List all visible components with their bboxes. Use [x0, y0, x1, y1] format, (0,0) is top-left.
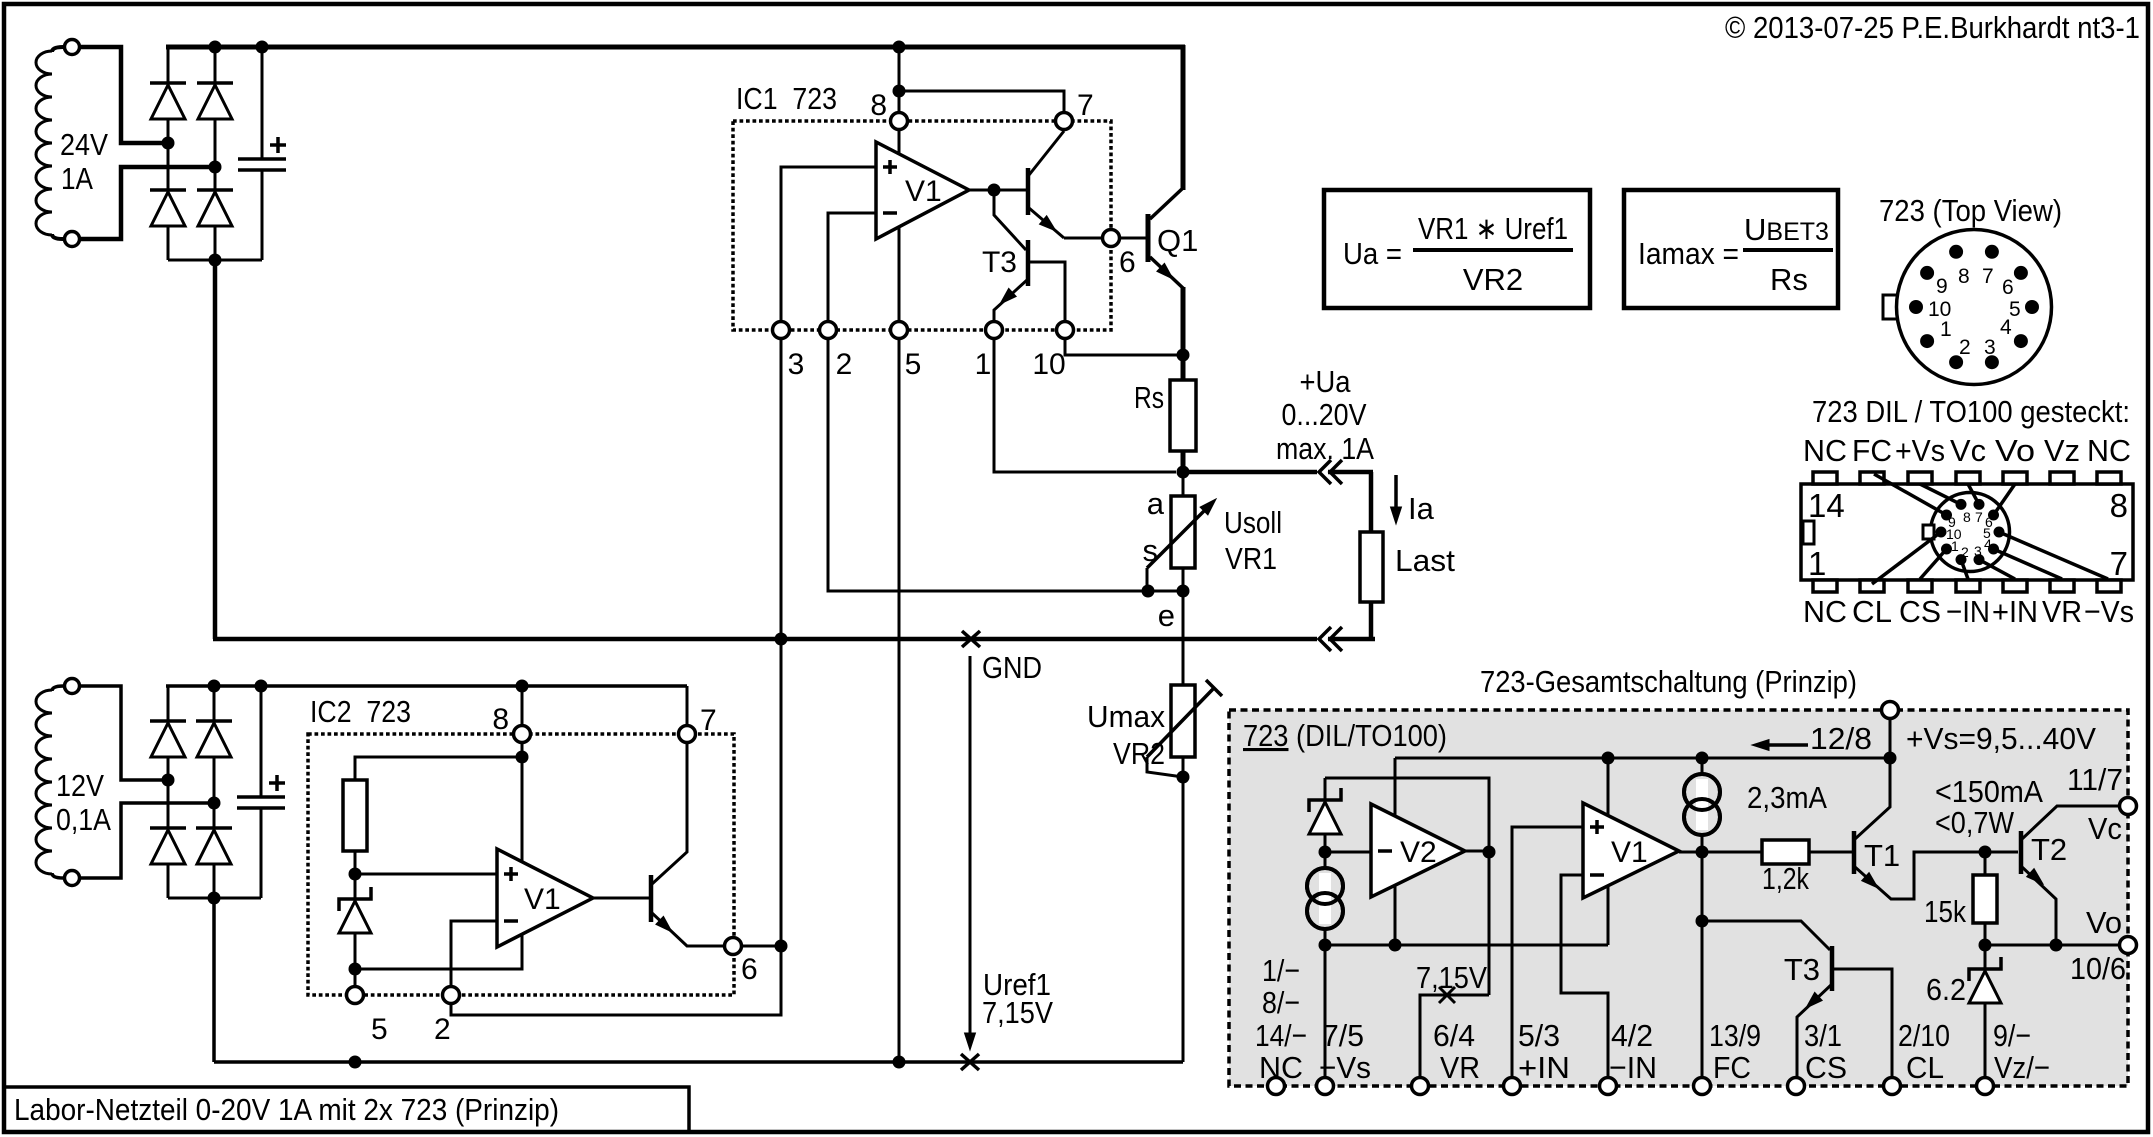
Vo wire: [1985, 944, 2119, 947]
svg-text:3: 3: [788, 348, 805, 381]
DIL bottom pin 1: [1813, 580, 1837, 592]
T3 collector to CL: [1832, 969, 1892, 1077]
DIL index notch: [1803, 521, 1814, 544]
diode D1: [150, 81, 186, 85]
bridge B2 bottom rail: [168, 897, 261, 900]
svg-text:−Vs: −Vs: [1319, 1050, 1371, 1085]
terminal TR1 top: [65, 40, 80, 55]
can pin 8: [1949, 245, 1963, 259]
svg-text:© 2013-07-25 P.E.Burkhardt nt3: © 2013-07-25 P.E.Burkhardt nt3-1: [1725, 10, 2140, 45]
bridge B1 bottom rail: [168, 259, 262, 262]
svg-text:1A: 1A: [61, 161, 93, 196]
svg-text:FC: FC: [1852, 433, 1892, 468]
resistor 1,2k: [1762, 840, 1809, 864]
wire: 24V negative down to GND rail: [213, 258, 218, 639]
diode D4: [197, 188, 233, 192]
wire: pin6 to Q1 base: [1120, 237, 1146, 240]
diode D2: [150, 188, 186, 192]
svg-text:8: 8: [492, 703, 509, 736]
svg-text:8/−: 8/−: [1262, 985, 1300, 1020]
pin 5 of IC2: [347, 987, 364, 1004]
node: zener bottom / V2 minus: [1319, 846, 1332, 859]
node: V- rail left: [1319, 939, 1332, 952]
node: V1 out: [988, 184, 1001, 197]
svg-text:9/−: 9/−: [1993, 1018, 2031, 1053]
svg-text:11/7: 11/7: [2067, 762, 2123, 797]
node: rail/IC2 pin8: [516, 680, 529, 693]
svg-text:0,1A: 0,1A: [56, 802, 111, 837]
node: rail/C1: [256, 41, 269, 54]
svg-text:2: 2: [1961, 544, 1969, 560]
transformer TR2 12V winding: [36, 690, 52, 874]
can pin dot 8: [1956, 499, 1967, 510]
wire: Rs bottom to VR1: [1182, 472, 1185, 496]
bridge B2 right column: [213, 686, 216, 898]
current source CS2 2,3mA: [1701, 758, 1704, 852]
op-amp V1 of IC1: [876, 142, 969, 239]
can pin dot 2: [1956, 554, 1967, 565]
svg-text:4: 4: [2000, 316, 2012, 339]
map line can pin 2: [1961, 560, 1968, 579]
node: VR1 e: [1177, 585, 1190, 598]
map line can pin 3: [1979, 560, 2015, 579]
terminal Vz: [1977, 1078, 1994, 1095]
wire: V+ down through V1 (supply): [521, 757, 524, 862]
current arrow Ia: [1394, 475, 1398, 514]
+IN wire: [1512, 827, 1583, 1077]
svg-text:NC: NC: [2087, 433, 2131, 468]
can pin 3: [1985, 355, 1999, 369]
transistor T3 internal: [1830, 946, 1835, 991]
op-amp V1 of IC2: [497, 849, 593, 947]
node: IC2 out / down line: [775, 940, 788, 953]
svg-text:1,2k: 1,2k: [1762, 861, 1809, 896]
map line can pin 4: [1994, 549, 2063, 579]
bridge B1 right column wire: [214, 47, 217, 260]
node: B2 minus: [208, 892, 221, 905]
svg-text:NC: NC: [1259, 1050, 1303, 1085]
node: V1 out / FC: [1696, 846, 1709, 859]
bridge B2 left column: [167, 686, 170, 898]
can pin 6: [2014, 266, 2028, 280]
map line can pin 7: [1968, 484, 1979, 504]
+Vs terminal: [1889, 719, 1892, 758]
svg-text:7,15V: 7,15V: [1416, 960, 1487, 995]
svg-text:a: a: [1147, 486, 1165, 521]
node: GND/pin3: [775, 633, 788, 646]
svg-text:723 DIL / TO100 gesteckt:: 723 DIL / TO100 gesteckt:: [1812, 394, 2130, 429]
svg-text:1: 1: [1808, 545, 1826, 582]
svg-text:IC1 723: IC1 723: [736, 81, 837, 116]
node: R1/zener junction: [349, 868, 362, 881]
DIL top pin 13: [1860, 472, 1884, 484]
wire: +Ua rail: [1183, 470, 1317, 475]
potentiometer VR1 (Usoll): [1171, 496, 1195, 568]
svg-text:NC: NC: [1803, 594, 1847, 629]
node: V- rail / V2 supply: [1389, 939, 1402, 952]
svg-text:14/−: 14/−: [1255, 1018, 1307, 1053]
can circle: [1897, 230, 2052, 385]
svg-text:+IN: +IN: [1518, 1050, 1570, 1085]
V2 supply wire: [1394, 758, 1397, 945]
node: Vo/T2 emitter: [2050, 939, 2063, 952]
svg-text:2: 2: [434, 1013, 451, 1046]
wire: collector to pin 7: [686, 686, 689, 726]
svg-text:e: e: [1158, 598, 1175, 633]
node: AC2 junction: [209, 161, 222, 174]
current direction arrow: [1763, 743, 1808, 747]
transformer TR1 24V winding: [36, 51, 52, 235]
wire: VR 7,15V tap: [1420, 995, 1489, 1077]
wire break chevrons on GND rail: [1319, 627, 1331, 651]
T1 emitter to T2 base: [1855, 852, 2018, 899]
wire: to load: [1369, 472, 1374, 532]
svg-text:8: 8: [1958, 265, 1970, 288]
wire: V- from V1 bottom: [355, 935, 522, 969]
resistor Last: [1360, 532, 1383, 602]
svg-text:VR: VR: [1440, 1050, 1480, 1085]
svg-text:IC2 723: IC2 723: [310, 694, 411, 729]
DIL top pin 11: [1956, 472, 1980, 484]
op-amp V2: [1371, 804, 1465, 897]
terminal -IN: [1600, 1078, 1617, 1095]
wire: V2 minus input: [1325, 851, 1371, 854]
svg-text:723 (DIL/TO100): 723 (DIL/TO100): [1243, 718, 1447, 753]
svg-text:7/5: 7/5: [1322, 1018, 1364, 1053]
T2 collector to Vc: [2022, 806, 2119, 839]
can pin dot 7: [1974, 499, 1985, 510]
map line can pin 10: [1872, 532, 1941, 584]
svg-text:6: 6: [741, 953, 758, 986]
terminal FC: [1694, 1078, 1711, 1095]
map line can pin 1: [1920, 549, 1947, 579]
terminal CS: [1788, 1078, 1805, 1095]
pin 1: [986, 322, 1003, 339]
DIL bottom pin 7: [2097, 580, 2121, 592]
svg-text:Umax: Umax: [1087, 699, 1165, 734]
wire: top to resistor: [355, 757, 522, 780]
svg-text:2/10: 2/10: [1898, 1018, 1950, 1053]
wire: V1 out to 1,2k: [1679, 851, 1762, 854]
gray dashed box: [1229, 710, 2128, 1086]
diode D5: [150, 719, 186, 723]
diode D8: [196, 826, 232, 830]
can pin 7: [1985, 245, 1999, 259]
wire: 12V minus to bottom rail: [212, 896, 216, 1062]
svg-text:10: 10: [1032, 348, 1065, 381]
zener 6.2: [1984, 945, 1987, 969]
svg-text:V1: V1: [1611, 836, 1648, 869]
svg-text:7: 7: [1982, 265, 1994, 288]
wire: IC1 pin5 down to bottom rail: [898, 330, 901, 1062]
svg-text:V1: V1: [905, 175, 942, 208]
svg-text:8: 8: [1963, 509, 1971, 525]
DIL top pin 10: [2003, 472, 2027, 484]
DIL bottom pin 2: [1860, 580, 1884, 592]
wire: e down through GND to VR2: [1182, 591, 1185, 685]
wire: Q1 emitter: [1150, 257, 1184, 289]
wire: + input of V1: [355, 873, 497, 876]
T3 base wire: [1702, 921, 1830, 950]
terminal TR1 bottom: [65, 232, 80, 247]
node: wiper: [1142, 585, 1155, 598]
svg-text:Q1: Q1: [1157, 223, 1198, 258]
svg-text:<150mA: <150mA: [1935, 774, 2043, 809]
svg-text:723-Gesamtschaltung (Prinzip): 723-Gesamtschaltung (Prinzip): [1480, 664, 1857, 699]
wire: pin10 to emitter: [1065, 339, 1183, 355]
svg-text:V2: V2: [1400, 836, 1437, 869]
resistor R1 of IC2: [343, 780, 367, 851]
transistor T2 internal (to pin7): [1026, 168, 1031, 215]
transistor T1 of IC2: [649, 875, 654, 922]
svg-text:CS: CS: [1805, 1050, 1847, 1085]
svg-text:5/3: 5/3: [1518, 1018, 1560, 1053]
IC2 723 dotted box: [308, 734, 734, 995]
can tab: [1883, 295, 1897, 319]
node: rail/B2: [208, 680, 221, 693]
wire: TR2 bottom to bridge: [80, 803, 208, 878]
wire: TR1 top terminal to bridge AC node 1: [80, 47, 162, 143]
svg-text:NC: NC: [1803, 433, 1847, 468]
node: pin10 junction: [1177, 349, 1190, 362]
svg-text:4: 4: [1984, 536, 1992, 552]
diode D7: [196, 719, 232, 723]
FC wire: [1701, 852, 1704, 1077]
svg-text:7: 7: [2110, 545, 2128, 582]
wire: IC1 pin2 - input: [828, 213, 1148, 591]
wire: -Vs terminal: [1324, 945, 1327, 1077]
wire: GND rail: [213, 637, 1317, 642]
terminal VR: [1412, 1078, 1429, 1095]
svg-text:6: 6: [2002, 276, 2014, 299]
wire: IC1 pin3 line continues to IC2 output: [451, 639, 781, 1015]
zener diode Z1 of IC2: [339, 887, 371, 911]
current source CS1: [1324, 852, 1327, 945]
svg-text:max. 1A: max. 1A: [1276, 431, 1374, 466]
svg-text:+Vs=9,5...40V: +Vs=9,5...40V: [1906, 721, 2096, 756]
formula box Iamax: [1624, 190, 1838, 308]
pin 2 of IC2: [443, 987, 460, 1004]
pin 6 of IC2: [725, 938, 742, 955]
node: 15k/T2 base: [1979, 846, 1992, 859]
DIL top pin 8: [2097, 472, 2121, 484]
svg-text:2,3mA: 2,3mA: [1747, 780, 1827, 815]
diode D3: [197, 81, 233, 85]
node: B2 AC1: [162, 774, 175, 787]
map line can pin 9: [1874, 474, 1947, 515]
svg-text:Iamax =: Iamax =: [1638, 236, 1739, 271]
can pin 4: [2014, 334, 2028, 348]
svg-text:Vo: Vo: [2086, 905, 2122, 940]
svg-text:1: 1: [975, 348, 992, 381]
svg-text:Ia: Ia: [1408, 491, 1435, 526]
node: rail/IC1 pin8 branch: [893, 41, 906, 54]
svg-text:+IN: +IN: [1992, 594, 2038, 629]
svg-text:VR1: VR1: [1225, 541, 1277, 576]
can pin 2: [1949, 355, 1963, 369]
wire: emitter to pin 6: [652, 913, 724, 946]
svg-text:GND: GND: [982, 650, 1042, 685]
internal V+ rail: [1395, 757, 1890, 760]
wire: IC1 pin3 + input: [781, 167, 876, 639]
internal V- rail: [1325, 944, 1608, 947]
DIL bottom pin 6: [2050, 580, 2074, 592]
DIL body: [1801, 484, 2133, 580]
can pin 9: [1920, 266, 1934, 280]
svg-text:2: 2: [836, 348, 853, 381]
transistor T1 internal: [1852, 831, 1857, 874]
svg-text:12/8: 12/8: [1810, 721, 1872, 756]
node: rail/C2: [255, 680, 268, 693]
svg-text:Ua =: Ua =: [1343, 236, 1402, 271]
svg-text:Usoll: Usoll: [1224, 505, 1282, 540]
bridge B1 left column wire: [167, 47, 170, 260]
T1 collector: [1855, 758, 1890, 839]
svg-text:1: 1: [1951, 538, 1959, 554]
node: bottom rail / IC2 pin5: [349, 1056, 362, 1069]
map line can pin 5: [1999, 532, 2108, 579]
wire: VR2 wiper tie: [1147, 757, 1183, 777]
can pin dot 1: [1941, 544, 1952, 555]
diode D6: [150, 826, 186, 830]
x marker 7,15V: [1439, 987, 1455, 1003]
wire: V2 out node: [1465, 850, 1489, 853]
svg-text:9: 9: [1936, 275, 1948, 298]
map line can pin 8: [1920, 484, 1961, 504]
svg-text:6: 6: [1119, 246, 1136, 279]
node: B1 minus junction: [209, 254, 222, 267]
pin 8 of IC2: [514, 726, 531, 743]
wire: V1 supply bottom: [1607, 886, 1610, 945]
svg-text:−IN: −IN: [1609, 1050, 1657, 1085]
pin 7 of IC2: [679, 726, 696, 743]
terminal -Vs: [1317, 1078, 1334, 1095]
wire: internal emitter to pin 6: [1064, 237, 1103, 240]
can pin dot 4: [1988, 544, 1999, 555]
svg-text:T1: T1: [1864, 838, 1900, 873]
DIL bottom pin 4: [1956, 580, 1980, 592]
can pin dot 6: [1988, 510, 1999, 521]
svg-text:VR: VR: [2042, 594, 2082, 629]
wire: V1 out down to T3 base: [994, 191, 1026, 250]
svg-text:4/2: 4/2: [1611, 1018, 1653, 1053]
GND marker x: [962, 631, 980, 647]
terminal CL: [1884, 1078, 1901, 1095]
svg-text:VR1 ∗ Uref1: VR1 ∗ Uref1: [1418, 211, 1568, 246]
wire: TR2 top to bridge: [80, 686, 162, 780]
wire: VR2 to bottom rail corner: [1182, 777, 1185, 1062]
wire: rail to pin8 and internal V+: [521, 686, 524, 757]
svg-text:24V: 24V: [60, 127, 108, 162]
svg-text:VR2: VR2: [1113, 736, 1165, 771]
pin 2: [820, 322, 837, 339]
pin 6: [1103, 230, 1120, 247]
wire: V1 output to T base: [593, 897, 649, 900]
DIL bottom pin 5: [2003, 580, 2027, 592]
svg-text:+Ua: +Ua: [1300, 364, 1352, 399]
wire: pin8 branch vertical (V+ of V1): [898, 47, 901, 155]
svg-text:<0,7W: <0,7W: [1935, 805, 2015, 840]
node: zener bottom: [349, 963, 362, 976]
wire: Q1 collector from +24V rail: [1181, 45, 1186, 190]
pin 8: [891, 113, 908, 130]
svg-text:Vc: Vc: [2088, 811, 2122, 846]
TO100 circle inside DIL: [1931, 493, 2010, 572]
wire break chevrons on +Ua rail: [1319, 460, 1331, 484]
node: B2 AC2: [208, 797, 221, 810]
wire: branch to pin 7: [899, 91, 1064, 121]
can pin dot 9: [1941, 510, 1952, 521]
zener top feedback wire: [1325, 778, 1489, 995]
svg-text:CS: CS: [1899, 594, 1941, 629]
node: rail/V1 supply: [1602, 752, 1615, 765]
wire: VR1 wiper tie: [1147, 568, 1183, 591]
svg-text:3/1: 3/1: [1804, 1018, 1842, 1053]
svg-text:10/6: 10/6: [2070, 951, 2126, 986]
svg-text:s: s: [1143, 533, 1159, 568]
node: Rs bottom / +Ua: [1177, 466, 1190, 479]
svg-text:Labor-Netzteil 0-20V 1A mit 2x: Labor-Netzteil 0-20V 1A mit 2x 723 (Prin…: [14, 1092, 559, 1127]
svg-text:T3: T3: [982, 246, 1017, 279]
node: FC/T3 base: [1696, 915, 1709, 928]
svg-text:7: 7: [700, 704, 717, 737]
pin 5: [891, 322, 908, 339]
pin 3: [773, 322, 790, 339]
svg-text:Rs: Rs: [1134, 380, 1164, 415]
transistor T3 of IC1: [1026, 240, 1031, 286]
svg-text:13/9: 13/9: [1709, 1018, 1761, 1053]
wire: TR1 bottom terminal to bridge AC node 2: [80, 167, 209, 239]
svg-text:Vz: Vz: [2044, 433, 2080, 468]
svg-text:T3: T3: [1784, 952, 1820, 987]
svg-text:CL: CL: [1852, 594, 1892, 629]
svg-text:7: 7: [1077, 89, 1094, 122]
T2 emitter to Vo: [2022, 867, 2056, 939]
svg-text:3: 3: [1974, 543, 1982, 559]
svg-text:Vz/−: Vz/−: [1994, 1050, 2050, 1085]
can pin dot 5: [1994, 527, 2005, 538]
map line can pin 6: [1994, 484, 2016, 515]
can pin 10: [1909, 300, 1923, 314]
terminal TR2 bottom: [65, 871, 80, 886]
op-amp V1 internal: [1583, 803, 1679, 898]
formula box Ua: [1324, 190, 1590, 308]
wire: VR1 bottom: [1182, 568, 1185, 591]
node: internal V+ branch: [516, 751, 529, 764]
pin 7: [1056, 113, 1073, 130]
wire: reference bottom rail: [214, 1060, 1183, 1064]
svg-text:0...20V: 0...20V: [1282, 397, 1367, 432]
T3 emitter to CS: [1797, 985, 1831, 1077]
svg-text:5: 5: [905, 348, 922, 381]
wire: T3 collector to pin 10: [1028, 262, 1065, 321]
svg-text:T2: T2: [2031, 832, 2067, 867]
Uref marker x: [961, 1054, 979, 1070]
svg-text:12V: 12V: [56, 768, 104, 803]
svg-text:−Vs: −Vs: [2084, 594, 2134, 629]
svg-text:Rs: Rs: [1770, 262, 1808, 297]
zener diode ZD internal: [1324, 778, 1327, 800]
DIL top pin 9: [2050, 472, 2074, 484]
svg-text:8: 8: [2110, 487, 2128, 524]
IC1 723 dotted box: [733, 121, 1111, 330]
svg-text:8: 8: [870, 89, 887, 122]
svg-text:VR2: VR2: [1463, 262, 1523, 297]
node: Vo line / 15k: [1979, 939, 1992, 952]
svg-text:FC: FC: [1713, 1050, 1751, 1085]
svg-text:Vo: Vo: [1995, 433, 2035, 468]
svg-text:−IN: −IN: [1946, 594, 1990, 629]
